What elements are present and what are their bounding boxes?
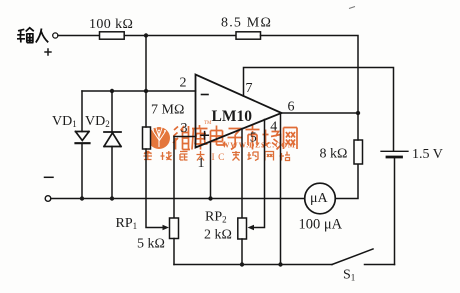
pin4 wire down to RP2 wiper — [252, 120, 265, 228]
diode VD1 — [81, 91, 83, 199]
svg-text:100 μA: 100 μA — [299, 217, 343, 233]
网 — [265, 152, 274, 161]
svg-text:4: 4 — [270, 120, 277, 135]
small line 全球最大IC采购网站 (hand drawn squares) — [144, 151, 205, 161]
球 — [161, 151, 172, 160]
svg-text:5 kΩ: 5 kΩ — [137, 237, 165, 252]
pin1 wire — [210, 142, 212, 199]
大 — [197, 151, 205, 161]
svg-text:LM10: LM10 — [212, 108, 253, 125]
battery right column bottom — [394, 157, 396, 265]
svg-text:5: 5 — [250, 131, 257, 146]
svg-text:3: 3 — [181, 121, 188, 136]
char4 子 — [228, 129, 243, 150]
svg-text:8 kΩ: 8 kΩ — [320, 147, 348, 162]
resistor R1 100k box — [100, 32, 125, 39]
采 — [232, 151, 240, 161]
svg-text:S1: S1 — [343, 268, 355, 283]
mid rail — [51, 198, 305, 200]
svg-text:1.5 V: 1.5 V — [412, 147, 443, 162]
svg-text:2: 2 — [180, 76, 187, 91]
站 — [280, 152, 291, 161]
svg-text:1: 1 — [198, 156, 205, 171]
pin6 output wire — [282, 112, 359, 114]
svg-text:μA: μA — [310, 191, 329, 206]
wire R2 to output column — [261, 36, 359, 114]
meter right wire — [335, 164, 358, 199]
pin3 wire — [174, 136, 196, 138]
svg-text:RP2: RP2 — [205, 210, 227, 225]
svg-text:VD2: VD2 — [85, 114, 110, 129]
label 输入 (hand drawn) — [17, 28, 48, 43]
battery B1 plates — [381, 150, 408, 152]
node A junction dot — [144, 33, 148, 37]
char1 维 — [173, 126, 190, 150]
svg-text:7 MΩ: 7 MΩ — [151, 103, 184, 118]
char5 市 — [246, 125, 260, 150]
big outline characters 维库电子市场网 (hand drawn) — [173, 125, 297, 150]
potentiometer RP1 — [173, 137, 175, 219]
wire 7M through — [146, 91, 165, 228]
全 — [144, 151, 153, 160]
VD1 rail dot — [80, 196, 84, 200]
char7 网 — [284, 128, 298, 150]
wire R1 to node A — [124, 35, 236, 37]
node B junction dot — [144, 89, 148, 93]
op-amp U1 triangle — [196, 75, 282, 148]
resistor R3 7M box — [143, 127, 151, 149]
minus sign label — [45, 176, 54, 178]
pin1 junction dot — [208, 196, 212, 200]
switch right contact — [365, 264, 395, 266]
VD2 rail dot — [110, 196, 114, 200]
wire node A down to pin2 rail — [145, 36, 147, 92]
svg-text:WWW.DZSC.COM: WWW.DZSC.COM — [222, 141, 296, 150]
wire input to R1 — [58, 35, 100, 37]
potentiometer RP2 — [238, 218, 247, 239]
char3 电 — [211, 126, 225, 146]
wire output down to bottom rail — [280, 113, 282, 265]
input + terminal — [53, 33, 58, 38]
char6 场 — [263, 130, 281, 150]
pin5 wire down to RP2 — [241, 129, 243, 219]
wire pin2 horizontal — [82, 90, 196, 92]
svg-text:VD1: VD1 — [52, 114, 77, 129]
bottom rail — [174, 264, 332, 266]
output junction dot — [356, 111, 360, 115]
svg-text:8.5 MΩ: 8.5 MΩ — [221, 16, 272, 31]
svg-text:100 kΩ: 100 kΩ — [89, 17, 133, 32]
minus sign pin2 — [202, 94, 209, 96]
switch S1 blade — [332, 249, 373, 265]
arrowhead to RP2 — [248, 225, 255, 230]
svg-text:7: 7 — [246, 81, 253, 96]
plus sign pin3 — [201, 132, 208, 139]
scan speck — [349, 7, 355, 9]
output line bottom dot — [278, 262, 282, 266]
char2 库 — [192, 125, 208, 150]
meter M1 circle — [305, 183, 336, 214]
svg-text:RP1: RP1 — [116, 216, 138, 231]
resistor R4 8k box — [354, 140, 363, 164]
svg-text:2 kΩ: 2 kΩ — [204, 228, 232, 243]
logo circle — [148, 127, 170, 149]
RP2 bottom dot — [240, 262, 244, 266]
svg-text:IC: IC — [212, 153, 229, 163]
label + (input) — [44, 48, 51, 55]
pin7 wire to battery top — [244, 68, 394, 152]
8k top wire — [357, 113, 359, 140]
resistor R2 8.5M box — [236, 32, 261, 39]
arrowhead to RP1 — [163, 225, 170, 230]
购 — [248, 152, 259, 161]
最 — [180, 152, 188, 161]
svg-text:6: 6 — [288, 100, 295, 115]
diode VD2 — [111, 91, 113, 199]
node C junction dot VD2 top — [110, 89, 114, 93]
minus terminal — [45, 196, 51, 202]
